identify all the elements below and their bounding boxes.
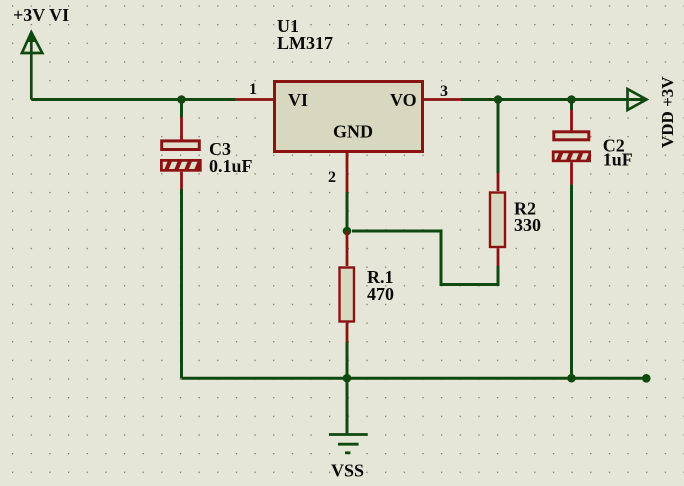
wire output node xyxy=(461,98,645,101)
wire R2 bottom to GND node xyxy=(352,231,498,285)
capacitor C3 pin bottom xyxy=(180,172,183,189)
svg-text:VI: VI xyxy=(288,90,308,110)
op-amp U1 LM317 body xyxy=(275,82,423,152)
svg-text:VSS: VSS xyxy=(331,461,364,481)
capacitor C2 bottom plate (hatched) xyxy=(552,150,598,164)
capacitor C2 pin bottom xyxy=(570,162,573,185)
svg-text:1: 1 xyxy=(249,81,257,98)
wire C3 bottom to ground bus xyxy=(180,189,183,378)
svg-text:2: 2 xyxy=(328,169,336,186)
wire pin2 to junction xyxy=(346,192,349,231)
wire C3 top xyxy=(180,100,183,118)
resistor R1 body xyxy=(340,268,355,322)
resistor R2 pin top xyxy=(497,173,500,191)
svg-text:GND: GND xyxy=(333,122,373,142)
svg-text:3: 3 xyxy=(440,83,448,100)
wire ground bus xyxy=(182,377,647,380)
junction dot at GND node xyxy=(343,227,352,236)
svg-text:1uF: 1uF xyxy=(603,150,633,170)
wire R1 bottom to bus xyxy=(346,342,349,378)
svg-text:LM317: LM317 xyxy=(277,33,333,53)
svg-text:330: 330 xyxy=(514,215,541,235)
svg-text:VDD +3V: VDD +3V xyxy=(658,76,677,148)
capacitor C3 top plate xyxy=(162,141,200,150)
svg-text:470: 470 xyxy=(367,284,394,304)
svg-text:+3V VI: +3V VI xyxy=(13,5,69,25)
power terminal VDD +3V arrow xyxy=(628,89,647,110)
svg-text:VO: VO xyxy=(390,90,417,110)
junction dot at C2 top xyxy=(567,95,576,104)
junction dot at C3 top xyxy=(177,95,186,104)
junction dot bus end xyxy=(642,374,651,383)
pin 3 stub xyxy=(424,98,461,101)
resistor R2 pin bottom xyxy=(497,248,500,266)
capacitor C2 top plate xyxy=(554,132,589,140)
resistor R1 pin bottom xyxy=(346,323,349,342)
wire ground stem xyxy=(346,378,349,434)
wire R2 top xyxy=(497,100,500,174)
pin 2 stub xyxy=(346,153,349,192)
wire input node: arrow corner to pin1 xyxy=(31,98,235,101)
pin 1 stub xyxy=(235,98,273,101)
power terminal +3V VI arrow xyxy=(22,32,42,99)
ground symbol xyxy=(329,435,368,453)
junction dot bus at C2 xyxy=(567,374,576,383)
resistor R1 pin top xyxy=(346,231,349,266)
capacitor C3 bottom plate (hatched) xyxy=(160,159,206,173)
junction dot at R2 top xyxy=(494,95,503,104)
wire C2 top xyxy=(570,100,573,111)
capacitor C2 pin top xyxy=(570,110,573,131)
capacitor C3 pin top xyxy=(180,117,183,140)
wire C2 bottom to bus xyxy=(570,185,573,378)
junction dot bus at R1 xyxy=(343,374,352,383)
svg-text:0.1uF: 0.1uF xyxy=(209,156,253,176)
resistor R2 body xyxy=(490,193,505,248)
